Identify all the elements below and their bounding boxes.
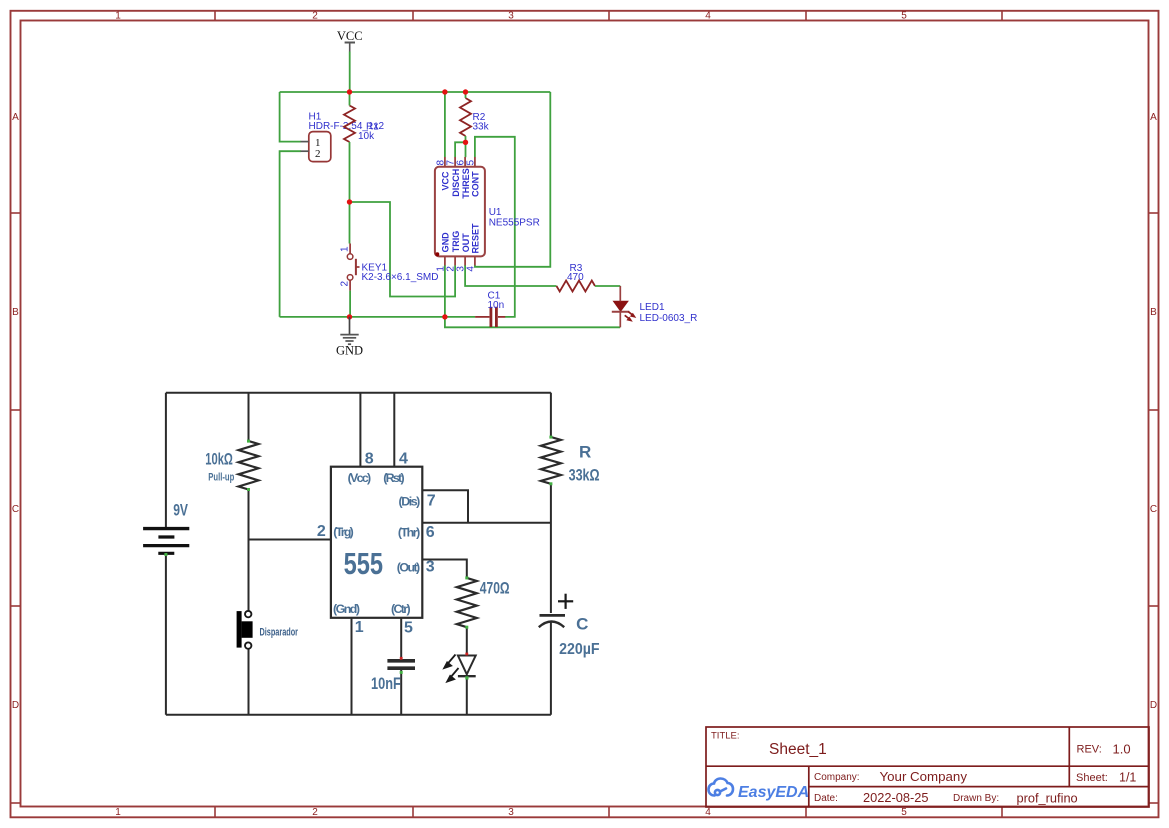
svg-text:2: 2 bbox=[312, 807, 318, 818]
svg-text:K2-3.6×6.1_SMD: K2-3.6×6.1_SMD bbox=[362, 272, 439, 283]
svg-text:470: 470 bbox=[567, 272, 584, 283]
pin numbers fig2 bbox=[317, 450, 436, 636]
label plus bbox=[558, 594, 573, 609]
svg-text:6: 6 bbox=[426, 524, 435, 541]
frame row ticks left bbox=[11, 213, 21, 803]
svg-text:(Vcc): (Vcc) bbox=[348, 471, 372, 485]
svg-text:C: C bbox=[1150, 504, 1157, 515]
resistor 10k pull-up bbox=[239, 441, 259, 490]
svg-text:5: 5 bbox=[901, 11, 907, 22]
svg-text:(Dis): (Dis) bbox=[399, 494, 421, 508]
svg-text:1: 1 bbox=[340, 246, 351, 252]
LED LED1 bbox=[612, 286, 637, 327]
pushbutton Disparador bbox=[237, 611, 253, 649]
title block row line 1 bbox=[706, 765, 1149, 767]
svg-text:Sheet_1: Sheet_1 bbox=[769, 741, 827, 758]
red marks fig2 bbox=[400, 653, 468, 660]
svg-text:1/1: 1/1 bbox=[1119, 771, 1136, 785]
svg-text:A: A bbox=[1150, 112, 1157, 123]
wire 10k bottom to button bbox=[248, 490, 250, 611]
wire pin6 threshold bbox=[422, 522, 551, 524]
svg-text:10nF: 10nF bbox=[371, 674, 401, 693]
svg-text:5: 5 bbox=[901, 807, 907, 818]
resistor R2 bbox=[460, 98, 471, 136]
wire 10k top bbox=[248, 393, 250, 441]
svg-text:D: D bbox=[1150, 700, 1157, 711]
svg-text:5: 5 bbox=[466, 160, 477, 166]
svg-text:A: A bbox=[12, 112, 19, 123]
ground symbol GND bbox=[340, 317, 358, 344]
title block logo cell divider bbox=[808, 766, 810, 807]
IC 555 body bbox=[331, 467, 422, 618]
wire 10nF to bottom rail bbox=[400, 668, 402, 715]
svg-text:Drawn By:: Drawn By: bbox=[953, 793, 999, 804]
svg-text:3: 3 bbox=[508, 11, 514, 22]
wire pin4 bbox=[393, 393, 395, 467]
svg-text:2: 2 bbox=[315, 148, 321, 160]
svg-text:C: C bbox=[12, 504, 19, 515]
frame row letters right bbox=[1150, 112, 1157, 711]
wire left rail to H1 pin1 bbox=[280, 92, 301, 142]
svg-text:OUT: OUT bbox=[461, 233, 471, 253]
junction dots bbox=[347, 89, 468, 319]
wire trigger branch bbox=[350, 202, 456, 297]
wire R1 bottom to KEY1 bbox=[349, 142, 351, 244]
svg-text:3: 3 bbox=[508, 807, 514, 818]
wire DISCH jog bbox=[455, 142, 465, 157]
frame column ticks bottom bbox=[215, 807, 1002, 818]
wire cap C to bottom rail bbox=[550, 623, 552, 715]
wire pin3 out bbox=[422, 560, 467, 578]
svg-text:B: B bbox=[1150, 307, 1157, 318]
wire button to bottom rail bbox=[248, 649, 250, 715]
svg-text:4: 4 bbox=[705, 11, 711, 22]
capacitor C1 bbox=[475, 307, 505, 327]
svg-text:Sheet:: Sheet: bbox=[1076, 772, 1108, 784]
wire H1 pin2 to bottom rail bbox=[280, 151, 301, 317]
pushbutton KEY1 bbox=[347, 244, 359, 291]
wire VCC stem bbox=[349, 52, 351, 93]
svg-text:Date:: Date: bbox=[814, 793, 838, 804]
svg-text:VCC: VCC bbox=[441, 171, 451, 191]
svg-text:CONT: CONT bbox=[471, 171, 481, 197]
svg-text:C: C bbox=[576, 614, 588, 633]
wire trigger to pin2 bbox=[249, 539, 331, 541]
svg-text:10k: 10k bbox=[358, 131, 375, 142]
wire left rail upper bbox=[165, 393, 167, 529]
svg-text:REV:: REV: bbox=[1077, 744, 1102, 756]
wire R2 top bbox=[465, 92, 467, 98]
svg-text:TRIG: TRIG bbox=[451, 231, 461, 253]
svg-text:4: 4 bbox=[399, 450, 408, 467]
svg-text:1: 1 bbox=[115, 11, 121, 22]
LED fig2 bbox=[458, 656, 476, 677]
net flag VCC bbox=[337, 29, 363, 52]
wire KEY1 bottom bbox=[349, 291, 351, 317]
wire LED to bottom rail bbox=[466, 676, 468, 715]
wire R3 to LED1 bbox=[595, 285, 620, 287]
title block outline bbox=[706, 727, 1149, 807]
svg-text:Disparador: Disparador bbox=[260, 626, 299, 638]
resistor R1 bbox=[344, 106, 355, 143]
wire VCC pin8 bbox=[444, 92, 446, 157]
wire 33k to cap C bbox=[550, 484, 552, 613]
title block row line 2 bbox=[809, 786, 1149, 788]
svg-text:(Gnd): (Gnd) bbox=[333, 602, 360, 616]
svg-text:TITLE:: TITLE: bbox=[711, 731, 740, 742]
svg-text:5: 5 bbox=[404, 619, 413, 636]
wire top VCC rail bbox=[280, 91, 551, 93]
svg-text:GND: GND bbox=[336, 344, 363, 358]
svg-text:555: 555 bbox=[344, 546, 383, 581]
capacitor 10nF bbox=[387, 661, 415, 668]
frame row ticks right bbox=[1149, 213, 1159, 803]
svg-text:4: 4 bbox=[466, 266, 477, 272]
wire pin5 ctr bbox=[400, 618, 402, 659]
wire bottom GND rail bbox=[280, 316, 476, 318]
svg-text:1.0: 1.0 bbox=[1113, 742, 1131, 757]
frame column ticks top bbox=[215, 11, 1002, 21]
svg-text:33kΩ: 33kΩ bbox=[569, 465, 600, 484]
svg-text:220µF: 220µF bbox=[559, 641, 600, 658]
svg-text:1: 1 bbox=[115, 807, 121, 818]
svg-text:Pull-up: Pull-up bbox=[208, 472, 234, 484]
svg-text:LED1: LED1 bbox=[640, 302, 665, 313]
resistor 470 bbox=[457, 578, 477, 627]
frame row letters left bbox=[12, 112, 19, 711]
svg-text:(Trg): (Trg) bbox=[333, 525, 354, 539]
svg-text:470Ω: 470Ω bbox=[480, 578, 510, 597]
resistor R 33k bbox=[541, 437, 561, 484]
svg-text:10kΩ: 10kΩ bbox=[205, 449, 233, 468]
svg-text:VCC: VCC bbox=[337, 29, 363, 43]
svg-text:EasyEDA: EasyEDA bbox=[738, 784, 809, 801]
battery 9V bbox=[143, 529, 189, 554]
svg-text:(Thr): (Thr) bbox=[398, 525, 420, 539]
svg-text:Your Company: Your Company bbox=[880, 769, 968, 784]
svg-text:(Rst): (Rst) bbox=[383, 471, 404, 485]
wire bottom rail (fig2) bbox=[166, 714, 551, 716]
wire 33k top bbox=[550, 393, 552, 437]
wire LED return bbox=[445, 317, 620, 327]
wire 470 to LED bbox=[466, 627, 468, 655]
svg-text:2: 2 bbox=[317, 523, 326, 540]
svg-text:RESET: RESET bbox=[471, 223, 481, 254]
svg-text:LED-0603_R: LED-0603_R bbox=[640, 313, 698, 324]
frame column numbers bottom bbox=[115, 807, 907, 818]
svg-text:2: 2 bbox=[340, 281, 351, 287]
resistor R3 bbox=[557, 281, 596, 292]
svg-text:33k: 33k bbox=[473, 121, 490, 132]
terminal dots fig2 bbox=[164, 436, 552, 680]
svg-text:(Ctr): (Ctr) bbox=[391, 602, 411, 616]
svg-text:10n: 10n bbox=[488, 300, 505, 311]
svg-text:4: 4 bbox=[705, 807, 711, 818]
svg-text:B: B bbox=[12, 307, 19, 318]
wire top rail (fig2) bbox=[166, 392, 551, 394]
wire pin7 discharge bbox=[422, 490, 468, 523]
svg-text:U1: U1 bbox=[489, 207, 502, 218]
svg-text:9V: 9V bbox=[173, 501, 188, 520]
wire pin8 bbox=[359, 393, 361, 467]
wire right rail RESET to VCC bbox=[475, 92, 550, 267]
wire pin1 gnd bbox=[351, 618, 353, 715]
svg-text:D: D bbox=[12, 700, 19, 711]
wire GND pin1 down bbox=[444, 265, 446, 317]
svg-text:3: 3 bbox=[426, 559, 435, 576]
wire R2 bottom to THRES bbox=[465, 136, 467, 157]
wire R1 top bbox=[349, 92, 351, 106]
wire left rail lower bbox=[165, 553, 167, 715]
svg-text:DISCH: DISCH bbox=[451, 169, 461, 197]
wire OUT to R3 bbox=[465, 265, 556, 286]
capacitor C 220uF bbox=[539, 615, 565, 627]
svg-text:2022-08-25: 2022-08-25 bbox=[863, 790, 928, 805]
svg-text:prof_rufino: prof_rufino bbox=[1017, 791, 1078, 806]
svg-text:2: 2 bbox=[312, 11, 318, 22]
svg-text:GND: GND bbox=[441, 232, 451, 253]
svg-text:Company:: Company: bbox=[814, 772, 860, 783]
svg-text:THRES: THRES bbox=[461, 168, 471, 199]
header H1 bbox=[301, 132, 331, 162]
svg-text:7: 7 bbox=[427, 493, 436, 510]
title block rev column divider bbox=[1068, 727, 1070, 787]
IC labels fig2 bbox=[333, 471, 420, 616]
svg-text:8: 8 bbox=[365, 450, 374, 467]
LED arrows fig2 bbox=[444, 655, 458, 682]
op IC U1 body bbox=[435, 157, 485, 265]
svg-text:(Out): (Out) bbox=[397, 561, 420, 575]
svg-text:1: 1 bbox=[355, 619, 364, 636]
frame column numbers top bbox=[115, 11, 907, 22]
wire CONT to C1 bbox=[475, 137, 515, 317]
svg-text:NE555PSR: NE555PSR bbox=[489, 218, 540, 229]
svg-text:R: R bbox=[579, 443, 591, 462]
EasyEDA logo cloud bbox=[709, 779, 734, 796]
